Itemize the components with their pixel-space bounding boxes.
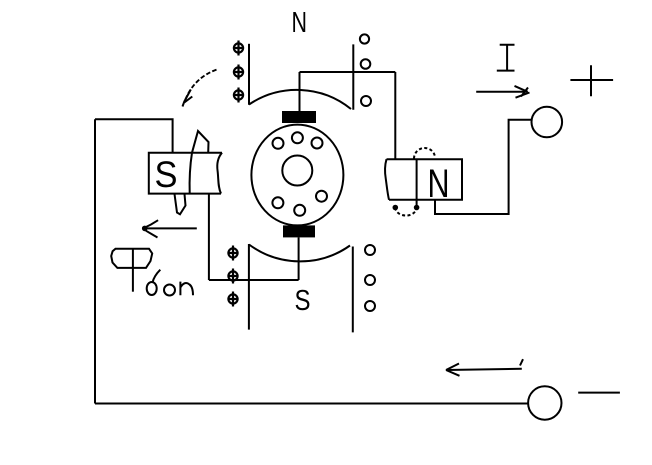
wire: N magnet bottom to positive terminal <box>435 120 532 214</box>
coil ribbon around S magnet (top peak) <box>192 131 209 153</box>
top brush (black) <box>282 111 316 123</box>
rotor conductor holes x6 <box>272 132 327 216</box>
wire: up to S magnet box <box>208 194 210 280</box>
force arrow (left, with dot tip) <box>142 220 197 237</box>
svg-text:S: S <box>155 154 178 195</box>
current direction arrow (top) <box>476 86 529 98</box>
positive terminal circle <box>532 107 563 138</box>
coil loop over N magnet (dashed) <box>414 148 435 159</box>
coil ribbon through S magnet <box>190 153 192 194</box>
current symbol I <box>497 45 515 71</box>
rotor (armature) outer circle <box>251 125 343 226</box>
annotation squiggle (delta-o-n) <box>147 270 193 296</box>
wire: top brush up <box>299 72 301 111</box>
svg-text:N: N <box>428 162 450 206</box>
negative terminal circle <box>528 386 561 419</box>
wire: down into N magnet coil <box>394 72 396 159</box>
coil ribbon tail below S magnet <box>175 194 186 214</box>
coil loop under N magnet (dashed) <box>395 208 416 216</box>
svg-text:N: N <box>292 7 308 39</box>
coil wire end dot left <box>393 205 399 211</box>
torn right edge of S magnet <box>217 153 222 194</box>
torn left edge of N magnet <box>385 159 389 200</box>
wire: left vertical run <box>94 119 96 403</box>
wire: top horizontal to N magnet <box>300 71 396 73</box>
rotor shaft circle <box>282 156 312 186</box>
wire: bottom brush down <box>298 237 300 280</box>
top pole piece (left side line, right side line, arc face) <box>249 44 353 110</box>
S magnet box <box>149 153 222 194</box>
wire: left lead from S magnet top <box>95 119 173 152</box>
plus sign <box>570 65 613 96</box>
minus sign <box>578 392 620 394</box>
N magnet box <box>385 159 462 200</box>
wire: bottom horizontal to S magnet wire <box>209 279 299 281</box>
field winding circle symbol (top-right, wire out of page) x3 <box>360 34 371 106</box>
coil front wire through N magnet <box>416 159 418 207</box>
annotation blob symbol (hand-drawn) <box>111 249 152 292</box>
field winding circle symbol (bottom-right) x3 <box>365 245 375 311</box>
field winding cross symbol (top-left, wire into page) x3 <box>233 41 244 103</box>
current direction arrow (bottom) <box>446 359 523 376</box>
svg-text:S: S <box>295 285 311 317</box>
bottom brush (black) <box>283 225 315 237</box>
rotation arrow (curved) <box>183 70 217 107</box>
coil wire end dot right <box>414 205 420 211</box>
field winding cross symbol (bottom-left) x3 <box>228 246 239 307</box>
bottom pole piece (left side line, right side line, arc face) <box>249 244 353 332</box>
wire: bottom run to negative terminal <box>95 403 528 405</box>
